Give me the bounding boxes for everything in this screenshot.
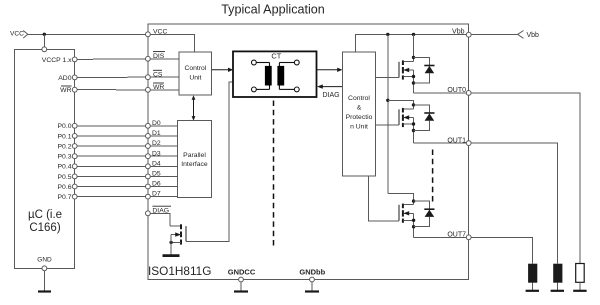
- svg-text:P0.3: P0.3: [58, 154, 72, 161]
- svg-text:VCC: VCC: [10, 30, 24, 37]
- svg-text:CT: CT: [271, 52, 281, 61]
- svg-text:P0.6: P0.6: [58, 184, 72, 191]
- svg-text:VCCP 1.x: VCCP 1.x: [42, 57, 72, 64]
- svg-text:C166): C166): [29, 222, 60, 234]
- svg-text:&: &: [357, 105, 362, 112]
- svg-text:P0.1: P0.1: [58, 133, 72, 140]
- svg-text:ISO1H811G: ISO1H811G: [148, 264, 211, 278]
- svg-text:WR: WR: [60, 87, 71, 94]
- svg-text:OUT1: OUT1: [447, 137, 466, 144]
- svg-text:GNDCC: GNDCC: [228, 268, 256, 277]
- svg-text:P0.2: P0.2: [58, 143, 72, 150]
- svg-text:Parallel: Parallel: [183, 152, 206, 159]
- svg-text:Protectio: Protectio: [346, 114, 373, 121]
- svg-text:Interface: Interface: [181, 161, 208, 168]
- svg-text:Control: Control: [348, 95, 370, 102]
- svg-text:Unit: Unit: [189, 75, 201, 82]
- svg-text:n Unit: n Unit: [350, 124, 368, 131]
- svg-text:DIAG: DIAG: [323, 92, 340, 99]
- svg-text:GND: GND: [37, 257, 52, 264]
- svg-text:OUT7: OUT7: [447, 232, 466, 239]
- svg-text:P0.0: P0.0: [58, 123, 72, 130]
- svg-text:µC (i.e: µC (i.e: [28, 209, 62, 221]
- svg-text:Control: Control: [184, 65, 206, 72]
- svg-text:P0.5: P0.5: [58, 174, 72, 181]
- svg-text:GNDbb: GNDbb: [299, 268, 325, 277]
- svg-text:OUT0: OUT0: [447, 87, 466, 94]
- svg-text:P0.7: P0.7: [58, 194, 72, 201]
- svg-text:P0.4: P0.4: [58, 164, 72, 171]
- svg-text:Vbb: Vbb: [527, 32, 540, 39]
- svg-text:Vbb: Vbb: [452, 29, 465, 36]
- svg-text:Typical Application: Typical Application: [221, 3, 325, 17]
- svg-text:AD0: AD0: [58, 75, 71, 82]
